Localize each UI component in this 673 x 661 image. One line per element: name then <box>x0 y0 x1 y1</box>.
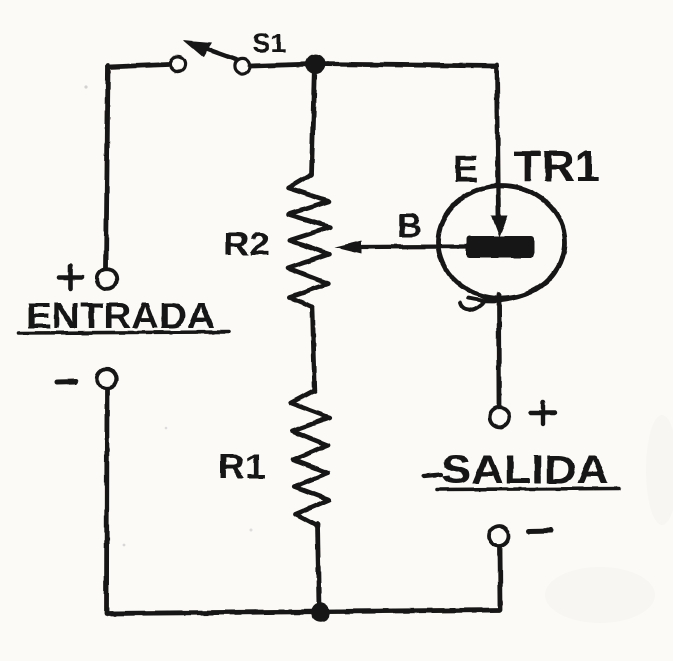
base arrowhead pointing left <box>335 241 362 254</box>
junction node bottom (dot) <box>311 603 331 623</box>
wire bottom horizontal <box>107 610 500 614</box>
wire left vertical lower (ENTRADA - to bottom wire) <box>104 390 109 614</box>
wire left vertical upper (corner down to ENTRADA +) <box>106 66 108 268</box>
wire top junction to right corner <box>315 64 497 66</box>
wire switch to top junction <box>251 64 315 66</box>
minus sign SALIDA <box>529 528 552 534</box>
transistor TR1 extra bottom arc (pen overlap) <box>468 257 562 301</box>
resistor R2 zigzag <box>288 174 330 307</box>
wire junction down to R2 top <box>312 64 315 175</box>
wire middle between R2 and R1 <box>312 307 314 391</box>
wire right vertical (corner down into transistor) <box>497 65 499 219</box>
plus sign SALIDA <box>531 402 555 424</box>
resistor R1 zigzag <box>291 390 330 526</box>
wire top horizontal left (corner to switch) <box>108 65 168 68</box>
switch S1 left contact circle <box>170 56 185 71</box>
wire R1 bottom lead <box>318 524 320 608</box>
minus sign ENTRADA <box>57 379 76 385</box>
svg-text:S1: S1 <box>252 28 286 58</box>
terminal ENTRADA + circle <box>97 269 117 289</box>
svg-text:TR1: TR1 <box>514 142 600 191</box>
svg-text:R1: R1 <box>218 448 266 486</box>
plus sign ENTRADA <box>59 266 82 289</box>
squiggle mark under TR1 <box>460 300 486 310</box>
underline ENTRADA <box>18 332 229 333</box>
svg-text:ENTRADA: ENTRADA <box>26 295 215 336</box>
switch S1 arrowhead <box>183 40 212 58</box>
wire base B lead <box>358 244 467 249</box>
dash before SALIDA <box>424 475 441 477</box>
terminal SALIDA + circle <box>490 408 510 428</box>
svg-text:SALIDA: SALIDA <box>441 448 609 492</box>
switch S1 lever <box>204 48 236 60</box>
transistor TR1 case circle <box>438 186 565 299</box>
underline SALIDA <box>437 489 619 490</box>
svg-text:E: E <box>453 149 478 191</box>
junction node top (dot) <box>306 54 326 74</box>
svg-text:B: B <box>397 207 422 245</box>
svg-text:R2: R2 <box>223 226 270 262</box>
wire TR1 emitter bottom to SALIDA + <box>497 295 502 405</box>
terminal SALIDA - circle <box>489 526 509 546</box>
emitter arrowhead inside TR1 <box>491 216 508 238</box>
switch S1 right contact circle <box>235 58 250 73</box>
transistor TR1 base bar <box>467 236 535 258</box>
wire SALIDA - down to bottom right corner <box>498 547 503 610</box>
terminal ENTRADA - circle <box>97 369 117 389</box>
